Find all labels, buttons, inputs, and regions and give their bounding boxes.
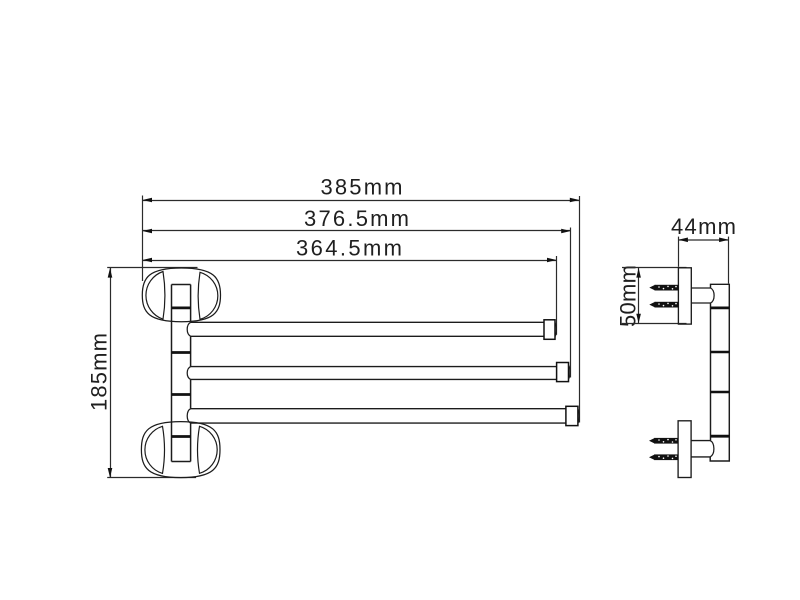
arm 3 end cap <box>566 406 579 425</box>
top mount screw lower <box>649 302 678 308</box>
extension line top horizontal (y=267.6) <box>107 267 197 269</box>
side post <box>710 284 729 461</box>
side post divider 1 <box>711 306 730 309</box>
extension line 44mm left (x=678.3) <box>678 237 680 267</box>
dimension 185mm (vertical, left) <box>87 268 113 478</box>
dimension 364.5mm <box>142 236 556 263</box>
extension line bottom horizontal (y=477.7) <box>107 477 196 479</box>
bottom mount left crescent <box>145 426 165 473</box>
dimension 385mm <box>142 175 579 203</box>
side post divider 2 <box>711 351 730 353</box>
top wall mount rosette <box>142 268 220 322</box>
extension line left vertical (x=142.4) <box>142 196 144 282</box>
post divider 3 <box>172 393 191 396</box>
post divider 1 <box>172 306 191 309</box>
extension line right for 364.5mm (x=556.6) <box>556 256 558 335</box>
dimension 44mm <box>671 214 736 242</box>
top mount right crescent <box>198 272 218 319</box>
bottom mount right crescent <box>198 426 218 473</box>
swing arm 1 (top) <box>187 322 544 336</box>
bottom mount screw lower <box>649 454 678 460</box>
arm 2 end cap <box>557 363 570 382</box>
extension line 50mm top (y=267.6) <box>622 267 687 269</box>
swing arm 3 (bottom) <box>187 409 566 423</box>
bottom wall plate (side view) <box>678 421 691 478</box>
extension line right for 376.5mm (x=570.8) <box>570 228 572 378</box>
vertical post <box>172 285 191 462</box>
svg-text:50mm: 50mm <box>616 265 641 327</box>
dimension 376.5mm <box>142 206 570 233</box>
side post divider 4 <box>711 435 730 438</box>
post divider 2 <box>172 351 191 354</box>
side post divider 3 <box>711 391 730 393</box>
dimension 50mm (vertical) <box>616 265 641 327</box>
svg-text:364.5mm: 364.5mm <box>296 236 402 261</box>
extension line right for 385mm (x=579.4) <box>579 196 581 423</box>
extension line 50mm bottom (y=323.4) <box>622 323 687 325</box>
swing arm 2 (middle) <box>187 367 556 380</box>
top pivot arm (side view) <box>691 288 714 303</box>
post divider 4 <box>172 435 191 438</box>
svg-text:185mm: 185mm <box>87 333 112 411</box>
bottom mount screw upper <box>649 438 678 444</box>
bottom pivot arm (side view) <box>691 441 714 457</box>
top wall plate (side view) <box>678 268 691 324</box>
svg-text:44mm: 44mm <box>671 214 736 239</box>
bottom wall mount rosette <box>141 422 220 478</box>
extension line 44mm right (x=728.7) <box>728 237 730 284</box>
top mount left crescent <box>146 272 165 320</box>
svg-text:376.5mm: 376.5mm <box>304 206 409 231</box>
arm 1 end cap <box>544 320 556 340</box>
top mount screw upper <box>649 285 678 291</box>
